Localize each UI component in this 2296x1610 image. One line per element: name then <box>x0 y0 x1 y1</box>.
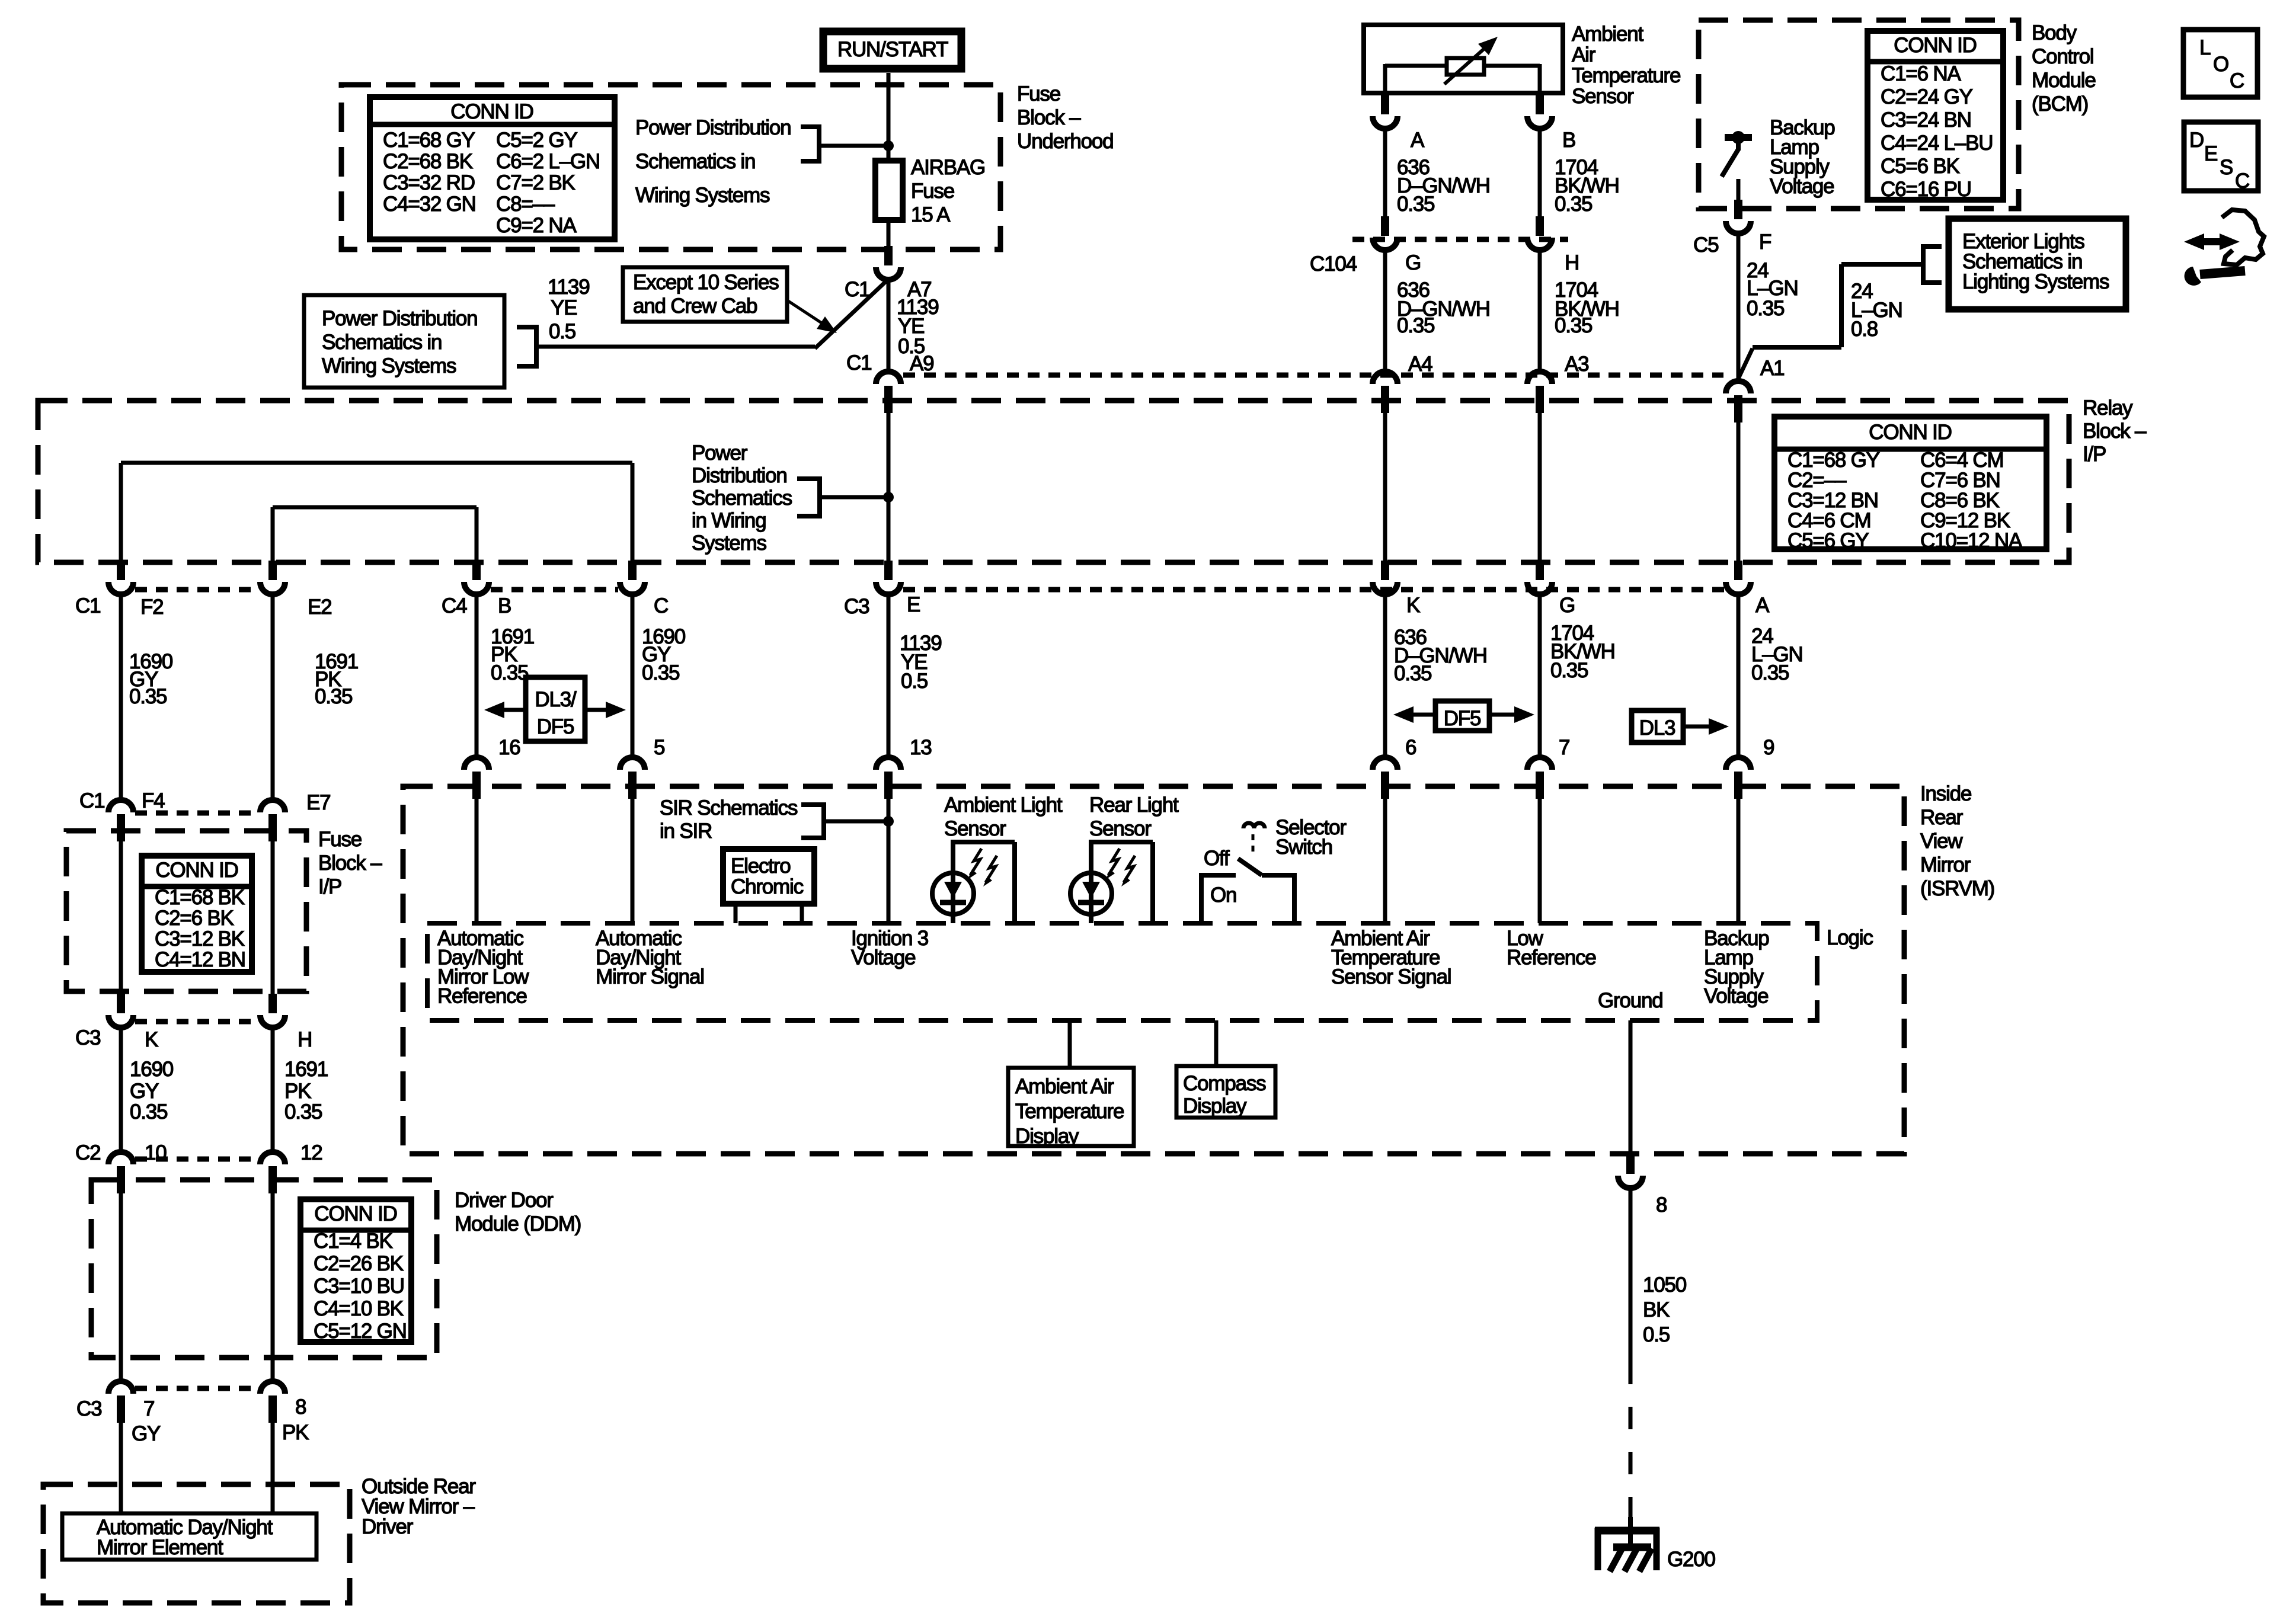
svg-text:H: H <box>298 1028 312 1051</box>
svg-text:1050: 1050 <box>1643 1273 1687 1297</box>
wire pin5 into ISRVM <box>631 799 635 923</box>
svg-text:A3: A3 <box>1565 353 1588 376</box>
svg-text:Block –: Block – <box>1017 106 1081 129</box>
fuse block I/P dashed box <box>66 831 306 991</box>
DESC legend box <box>2184 122 2258 191</box>
wire logic to ambient air temperature display <box>1068 1020 1072 1068</box>
svg-text:Display: Display <box>1015 1125 1079 1148</box>
wire A9 to E (ignition through relay block) <box>887 401 891 561</box>
svg-text:K: K <box>1406 594 1420 617</box>
electro chromic stubs <box>734 904 738 923</box>
arrow from except label to wire <box>788 301 821 322</box>
connector pin G <box>1527 582 1552 594</box>
svg-text:E: E <box>2204 142 2217 165</box>
ambient air temperature display box <box>1008 1068 1134 1146</box>
wire pin7 into ISRVM <box>1538 799 1542 923</box>
svg-text:CONN ID: CONN ID <box>314 1202 396 1225</box>
wire E7 through fuse block <box>271 832 275 994</box>
svg-text:Rear: Rear <box>1920 806 1964 829</box>
wire pin16 into ISRVM <box>475 799 479 923</box>
svg-text:0.8: 0.8 <box>1851 318 1878 341</box>
svg-text:C1=68 GY: C1=68 GY <box>383 129 475 152</box>
svg-text:Except 10 Series: Except 10 Series <box>633 271 779 294</box>
ambient air temperature sensor box <box>1364 25 1563 93</box>
svg-text:DF5: DF5 <box>537 715 574 738</box>
svg-text:0.35: 0.35 <box>642 661 679 684</box>
svg-text:0.35: 0.35 <box>1555 193 1592 216</box>
backup lamp switch in BCM <box>1725 134 1752 141</box>
svg-text:Sensor Signal: Sensor Signal <box>1331 965 1451 988</box>
wire bracket to ignition wire <box>820 495 888 500</box>
svg-text:5: 5 <box>654 736 664 759</box>
svg-text:F: F <box>1759 231 1771 254</box>
wire K to 10 <box>119 1028 123 1152</box>
svg-text:Module: Module <box>2032 69 2096 92</box>
wire A3 to G <box>1538 401 1542 561</box>
svg-text:A9: A9 <box>910 352 933 375</box>
connector pin 8 (ground) <box>1618 1176 1643 1188</box>
relay internal wire F2-C <box>121 461 632 465</box>
svg-text:0.35: 0.35 <box>129 685 167 708</box>
svg-text:Lighting Systems: Lighting Systems <box>1962 270 2109 293</box>
svg-text:BK: BK <box>1643 1298 1670 1321</box>
svg-text:Distribution: Distribution <box>692 464 787 487</box>
svg-text:C: C <box>2230 69 2244 92</box>
svg-text:Off: Off <box>1204 847 1230 870</box>
junction node SIR <box>883 816 894 827</box>
wire 8 to mirror element <box>271 1413 275 1513</box>
svg-text:C8=––: C8=–– <box>496 193 555 216</box>
svg-text:C1=4 BK: C1=4 BK <box>314 1230 393 1253</box>
svg-text:Inside: Inside <box>1920 782 1971 805</box>
connector pin E7 <box>260 800 285 812</box>
svg-text:C2=6 BK: C2=6 BK <box>155 907 234 930</box>
svg-text:GY: GY <box>132 1422 161 1445</box>
wire F to A1 <box>1737 233 1741 381</box>
wire fuse to connector C1 A7 <box>887 220 891 249</box>
svg-text:On: On <box>1210 884 1236 907</box>
svg-text:7: 7 <box>1559 736 1569 759</box>
svg-text:0.35: 0.35 <box>1555 314 1592 337</box>
svg-text:C2: C2 <box>75 1141 100 1164</box>
wire B to pin 16 <box>475 594 479 757</box>
connector C3 pin 7 <box>108 1381 133 1394</box>
svg-text:Sensor: Sensor <box>1572 85 1634 108</box>
CONN ID table BCM <box>1868 31 2003 200</box>
wire E to pin 13 <box>887 594 891 757</box>
svg-text:6: 6 <box>1405 736 1416 759</box>
wire C to pin 5 <box>631 594 635 757</box>
svg-text:Driver: Driver <box>362 1515 414 1538</box>
svg-text:View: View <box>1920 830 1963 853</box>
svg-text:in SIR: in SIR <box>660 820 712 843</box>
rear light sensor icon <box>1089 840 1153 844</box>
splice label DL3/DF5 with arrows <box>526 677 585 741</box>
callout bracket relay power distribution <box>797 476 820 481</box>
svg-text:Electro: Electro <box>731 854 791 878</box>
connector face lines relay bottom <box>135 587 258 593</box>
svg-text:C1: C1 <box>846 351 871 375</box>
power node RUN/START <box>823 31 961 69</box>
svg-text:C3=32 RD: C3=32 RD <box>383 171 475 194</box>
svg-text:Systems: Systems <box>692 532 766 555</box>
relay internal wire E2-B <box>273 505 477 510</box>
LOC legend box <box>2183 30 2257 97</box>
svg-text:1690: 1690 <box>130 1058 174 1081</box>
svg-text:Block –: Block – <box>318 852 382 875</box>
svg-text:C3: C3 <box>75 1026 100 1049</box>
svg-text:C2=26 BK: C2=26 BK <box>314 1252 404 1275</box>
connector C3 pin K <box>108 1015 133 1028</box>
svg-text:C3=12 BK: C3=12 BK <box>155 927 245 950</box>
callout bracket from power distribution box <box>517 325 536 329</box>
svg-text:G: G <box>1559 594 1575 617</box>
svg-text:(ISRVM): (ISRVM) <box>1920 877 1994 900</box>
svg-text:Body: Body <box>2032 21 2077 44</box>
svg-text:C4=12 BN: C4=12 BN <box>155 948 245 971</box>
connector face line F4 E7 <box>135 811 258 816</box>
connector face line A9 A4 A3 A1 <box>903 373 1723 378</box>
svg-text:Ambient Air: Ambient Air <box>1015 1075 1114 1098</box>
svg-text:C4=32 GN: C4=32 GN <box>383 193 476 216</box>
svg-text:Ground: Ground <box>1598 989 1663 1012</box>
svg-text:Voltage: Voltage <box>1704 985 1768 1008</box>
svg-text:Display: Display <box>1183 1094 1247 1118</box>
connector pin 13 <box>876 757 901 770</box>
svg-text:K: K <box>145 1028 158 1051</box>
connector C1 pin A9 <box>876 372 901 384</box>
svg-text:I/P: I/P <box>2083 443 2106 466</box>
svg-text:C5=6 GY: C5=6 GY <box>1787 529 1869 552</box>
svg-text:16: 16 <box>498 736 520 759</box>
svg-text:Control: Control <box>2032 45 2093 68</box>
junction node at fuse feed <box>883 140 894 151</box>
svg-text:Underhood: Underhood <box>1017 130 1113 153</box>
CONN ID table relay block <box>1774 417 2046 549</box>
wire E2 to E7 <box>271 594 275 800</box>
logic dashed box <box>427 923 1817 1020</box>
callout bracket SIR <box>801 802 824 807</box>
svg-text:Mirror Element: Mirror Element <box>97 1536 223 1559</box>
svg-text:C3=24 BN: C3=24 BN <box>1881 108 1971 132</box>
svg-text:YE: YE <box>551 296 577 319</box>
connector pin A1 <box>1726 381 1751 393</box>
fuse AIRBAG 15A <box>875 161 903 220</box>
connector C104 pin H <box>1527 238 1552 250</box>
svg-text:12: 12 <box>300 1141 322 1164</box>
svg-text:C10=12 NA: C10=12 NA <box>1920 529 2023 552</box>
connector C104 pin G <box>1373 238 1398 250</box>
compass display box <box>1176 1066 1275 1118</box>
svg-text:Driver Door: Driver Door <box>455 1189 554 1212</box>
wire A to pin 9 <box>1737 594 1741 757</box>
svg-text:C5=6 BK: C5=6 BK <box>1881 155 1960 178</box>
svg-text:C9=2 NA: C9=2 NA <box>496 214 577 237</box>
tools icon arrow and wrench <box>2199 238 2212 245</box>
connector pin A <box>1726 582 1751 594</box>
connector pin C <box>620 582 645 594</box>
sensor internal wires <box>1385 64 1447 68</box>
svg-text:E: E <box>907 593 920 616</box>
connector pin 6 <box>1373 757 1398 770</box>
connector pin H <box>260 1015 285 1028</box>
body control module dashed box <box>1699 20 2019 209</box>
svg-text:and Crew Cab: and Crew Cab <box>633 295 757 318</box>
svg-text:0.5: 0.5 <box>901 670 928 693</box>
wire pin6 into ISRVM <box>1383 799 1387 923</box>
connector pin A3 <box>1527 372 1552 384</box>
svg-text:0.35: 0.35 <box>1747 297 1784 320</box>
svg-text:Logic: Logic <box>1827 926 1873 949</box>
svg-text:1691: 1691 <box>284 1058 328 1081</box>
wire H to 12 <box>271 1028 275 1152</box>
thermistor variable arrow <box>1444 49 1483 84</box>
connector face line 10 12 <box>135 1157 258 1162</box>
selector switch dashed stem <box>1252 834 1255 857</box>
svg-text:C1=68 BK: C1=68 BK <box>155 886 245 909</box>
svg-text:C: C <box>654 594 668 617</box>
svg-text:0.35: 0.35 <box>491 661 528 684</box>
svg-text:C6=2 L–GN: C6=2 L–GN <box>496 150 600 173</box>
svg-text:L: L <box>2199 36 2211 59</box>
svg-text:Fuse: Fuse <box>1017 82 1060 105</box>
svg-text:Air: Air <box>1572 43 1596 66</box>
automatic day/night mirror element box <box>62 1513 316 1560</box>
svg-text:B: B <box>498 594 511 617</box>
wire switch to C5 <box>1737 179 1741 204</box>
thermistor element <box>1447 58 1484 75</box>
svg-text:Ambient: Ambient <box>1572 23 1643 46</box>
svg-text:C1: C1 <box>79 789 104 812</box>
svg-text:Power Distribution: Power Distribution <box>322 307 477 330</box>
wire exterior lights branch <box>1841 262 1923 267</box>
svg-text:H: H <box>1565 251 1579 274</box>
svg-text:C2=68 BK: C2=68 BK <box>383 150 473 173</box>
svg-text:C7=2 BK: C7=2 BK <box>496 171 575 194</box>
relay block I/P dashed box <box>38 401 2069 562</box>
svg-text:Reference: Reference <box>437 985 527 1008</box>
fuse block underhood dashed box <box>341 85 1000 249</box>
svg-text:A1: A1 <box>1760 357 1784 380</box>
connector face line 7 8 <box>135 1386 258 1391</box>
wire G to A4 <box>1383 250 1387 372</box>
svg-text:PK: PK <box>284 1080 311 1103</box>
svg-text:C5=2 GY: C5=2 GY <box>496 129 577 152</box>
inside rear view mirror dashed box <box>403 786 1904 1154</box>
selector switch lever <box>1238 859 1262 875</box>
svg-text:Relay: Relay <box>2083 396 2133 420</box>
svg-text:Wiring Systems: Wiring Systems <box>635 184 770 207</box>
svg-text:Schematics: Schematics <box>692 486 792 510</box>
wire F4 through fuse block <box>119 832 123 994</box>
svg-text:Temperature: Temperature <box>1015 1100 1124 1123</box>
svg-text:C6=16 PU: C6=16 PU <box>1881 178 1971 201</box>
svg-text:CONN ID: CONN ID <box>155 859 238 882</box>
electro chromic box <box>723 849 814 904</box>
wire pin8 to G200 <box>1629 1188 1633 1362</box>
svg-text:0.35: 0.35 <box>315 685 352 708</box>
wire A4 to K <box>1383 401 1387 561</box>
wire pin9 into ISRVM <box>1737 799 1741 923</box>
connector pin 5 <box>620 757 645 770</box>
svg-text:B: B <box>1562 129 1575 152</box>
wire 7 to mirror element <box>119 1413 123 1513</box>
svg-text:0.5: 0.5 <box>1643 1323 1670 1346</box>
svg-text:C104: C104 <box>1310 252 1357 276</box>
svg-text:Sensor: Sensor <box>944 817 1006 840</box>
svg-text:O: O <box>2213 53 2228 76</box>
svg-text:Fuse: Fuse <box>318 828 362 851</box>
svg-text:F4: F4 <box>142 789 165 812</box>
svg-text:C3=10 BU: C3=10 BU <box>314 1275 404 1298</box>
selector switch On contact <box>1201 873 1236 878</box>
CONN ID table fuse block I/P <box>142 856 252 972</box>
svg-text:A: A <box>1755 594 1770 617</box>
svg-text:Wiring Systems: Wiring Systems <box>322 354 456 377</box>
svg-text:Reference: Reference <box>1507 946 1596 969</box>
svg-text:G: G <box>1405 251 1421 274</box>
connector C3 pin E <box>876 582 901 594</box>
connector pin K <box>1373 582 1398 594</box>
svg-text:A4: A4 <box>1408 353 1432 376</box>
svg-text:10: 10 <box>145 1141 167 1164</box>
svg-text:0.35: 0.35 <box>1550 659 1588 682</box>
svg-text:C1=6 NA: C1=6 NA <box>1881 62 1961 85</box>
label box Exterior Lights Schematics in Lighting Systems <box>1949 219 2126 309</box>
svg-text:Voltage: Voltage <box>1770 175 1834 198</box>
svg-text:Sensor: Sensor <box>1089 817 1152 840</box>
wire G to pin 7 <box>1538 594 1542 757</box>
svg-text:Rear Light: Rear Light <box>1089 793 1179 817</box>
CONN ID table fuse block underhood <box>370 97 615 239</box>
svg-text:G200: G200 <box>1667 1548 1716 1571</box>
svg-text:C5=12 GN: C5=12 GN <box>314 1320 407 1343</box>
connector C104 face line <box>1352 237 1568 242</box>
svg-text:PK: PK <box>282 1421 309 1444</box>
connector C2 pin 10 <box>108 1152 133 1164</box>
wire B to C104 <box>1538 129 1542 217</box>
svg-text:A: A <box>1411 129 1425 152</box>
svg-text:C4: C4 <box>442 594 467 617</box>
wire logic to compass display <box>1214 1020 1219 1066</box>
svg-text:Power: Power <box>692 441 748 465</box>
driver door module dashed box <box>91 1180 437 1358</box>
connector face line K H <box>135 1019 258 1025</box>
connector C5 pin F <box>1726 221 1751 233</box>
svg-text:15 A: 15 A <box>911 203 951 226</box>
svg-text:RUN/START: RUN/START <box>837 38 948 61</box>
sensor pigtail connector pin B <box>1527 116 1552 129</box>
svg-text:9: 9 <box>1763 736 1774 759</box>
svg-text:CONN ID: CONN ID <box>1869 421 1951 444</box>
svg-text:0.35: 0.35 <box>1394 662 1431 685</box>
svg-text:E2: E2 <box>308 596 331 619</box>
svg-text:Mirror: Mirror <box>1920 853 1971 876</box>
wire RUN/START to fuse block junction <box>887 73 891 146</box>
svg-text:13: 13 <box>910 736 932 759</box>
wire junction to AIRBAG fuse <box>887 146 891 163</box>
svg-text:Compass: Compass <box>1183 1072 1266 1095</box>
wire K to pin 6 <box>1383 594 1387 757</box>
svg-text:Fuse: Fuse <box>911 180 954 203</box>
splice label DF5 with arrows <box>1435 701 1489 731</box>
callout bracket exterior lights <box>1923 244 1942 249</box>
wire A to C104 <box>1383 129 1387 217</box>
outside rear view mirror dashed box <box>43 1484 350 1603</box>
svg-text:C4=10 BK: C4=10 BK <box>314 1297 404 1320</box>
svg-text:Chromic: Chromic <box>731 875 804 898</box>
svg-text:GY: GY <box>130 1080 159 1103</box>
sensor pigtail connector pin A <box>1373 116 1398 129</box>
svg-text:CONN ID: CONN ID <box>1894 34 1976 57</box>
svg-text:0.5: 0.5 <box>549 320 575 343</box>
svg-text:8: 8 <box>1656 1193 1667 1217</box>
connector pin A4 <box>1373 372 1398 384</box>
svg-text:7: 7 <box>143 1397 154 1420</box>
wire bracket to junction <box>819 144 888 148</box>
svg-text:I/P: I/P <box>318 875 341 898</box>
ambient light sensor icon <box>951 840 1015 844</box>
svg-text:0.35: 0.35 <box>1751 661 1789 684</box>
ground G200 symbol <box>1628 1517 1633 1547</box>
wire F2 to F4 <box>119 594 123 800</box>
svg-text:8: 8 <box>295 1395 306 1419</box>
wire H to A3 <box>1538 250 1542 372</box>
wire 10 through DDM <box>119 1184 123 1381</box>
svg-text:0.35: 0.35 <box>284 1100 322 1124</box>
connector C1 pin F4 <box>108 800 133 812</box>
svg-text:Schematics in: Schematics in <box>635 150 755 173</box>
connector pin 12 <box>260 1152 285 1164</box>
svg-text:0.35: 0.35 <box>1397 314 1434 337</box>
svg-text:Module (DDM): Module (DDM) <box>455 1212 581 1235</box>
svg-text:DF5: DF5 <box>1444 707 1481 730</box>
wire pin13 ignition 3 voltage <box>887 799 891 923</box>
splice label DL3 with arrow <box>1632 710 1683 742</box>
svg-text:DL3/: DL3/ <box>535 688 577 711</box>
svg-text:AIRBAG: AIRBAG <box>911 156 985 179</box>
svg-text:D: D <box>2189 129 2204 152</box>
svg-text:in Wiring: in Wiring <box>692 509 766 532</box>
svg-text:Switch: Switch <box>1275 836 1332 859</box>
svg-text:C4=24 L–BU: C4=24 L–BU <box>1881 132 1993 155</box>
connector C1 pin A7 <box>876 267 901 280</box>
svg-text:0.35: 0.35 <box>130 1100 167 1124</box>
wire A1 to A <box>1737 401 1741 561</box>
wire power distribution feed to A7 <box>536 345 815 349</box>
CONN ID table DDM <box>300 1199 411 1342</box>
svg-text:C1: C1 <box>75 594 100 617</box>
svg-text:1139: 1139 <box>548 276 589 299</box>
svg-text:Mirror Signal: Mirror Signal <box>596 965 704 988</box>
svg-text:Schematics in: Schematics in <box>322 331 442 354</box>
connector pin 8 (mirror) <box>260 1381 285 1394</box>
wire A7 to A9 <box>887 280 891 372</box>
connector pin 9 <box>1726 757 1751 770</box>
selector switch icon <box>1243 823 1254 828</box>
svg-text:S: S <box>2220 156 2233 179</box>
label Power Distribution Schematics in Wiring Systems (left box) <box>304 295 504 388</box>
connector pin 16 <box>464 757 489 770</box>
wire SIR to ignition wire <box>824 820 888 824</box>
svg-text:C2=24 GY: C2=24 GY <box>1881 85 1973 108</box>
svg-text:Block –: Block – <box>2083 420 2147 443</box>
callout bracket to fuse feed wire <box>801 124 819 129</box>
svg-text:C3: C3 <box>76 1397 101 1420</box>
svg-text:Temperature: Temperature <box>1572 64 1680 87</box>
svg-text:Power Distribution: Power Distribution <box>635 116 791 139</box>
wire 12 through DDM <box>271 1184 275 1381</box>
